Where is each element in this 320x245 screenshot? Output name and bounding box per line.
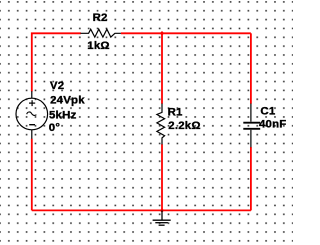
svg-text:5kHz: 5kHz [49, 110, 77, 122]
svg-text:0°: 0° [49, 122, 61, 134]
wire bottom segment [32, 209, 251, 211]
svg-text:1kΩ: 1kΩ [87, 40, 110, 52]
svg-text:V2: V2 [50, 80, 64, 92]
wire middle branch upper (top wire to R1) [161, 33, 163, 103]
wire right branch upper (top wire to C1) [250, 33, 252, 103]
junction bottom (node at ground) [160, 208, 165, 213]
resistor R2 [81, 29, 121, 37]
svg-text:C1: C1 [260, 105, 275, 117]
resistor R1 [157, 104, 165, 145]
capacitor C1 [243, 104, 260, 148]
wire middle branch lower (R1 to ground junction) [161, 144, 163, 210]
svg-text:2.2kΩ: 2.2kΩ [168, 120, 200, 132]
wire left branch lower (V2 bottom to bottom-left corner) [31, 139, 33, 211]
svg-text:40nF: 40nF [259, 119, 287, 131]
wire top left segment (V2 top corner to R2) [32, 33, 81, 91]
wire top right segment (R2 to top-right corner) [121, 32, 251, 34]
ground [153, 210, 171, 225]
svg-text:R2: R2 [93, 12, 108, 24]
wire right branch lower (C1 to bottom wire) [250, 147, 252, 210]
svg-text:R1: R1 [168, 107, 183, 119]
svg-text:24Vpk: 24Vpk [50, 94, 85, 106]
junction top (node at R1 top) [160, 31, 165, 36]
ac source V2 [16, 91, 48, 139]
